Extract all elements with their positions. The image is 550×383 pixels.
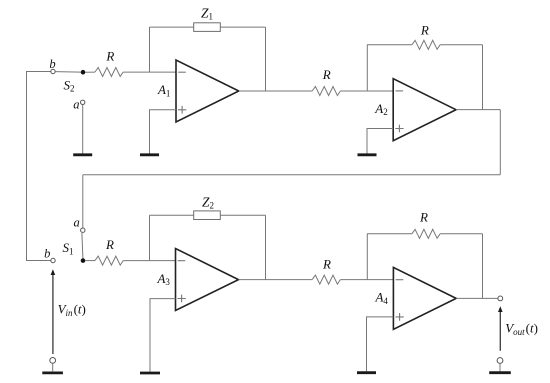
switch S1 blade	[82, 233, 83, 258]
wire A4 feedback top left segment	[367, 233, 412, 235]
ground A1	[140, 153, 159, 156]
switch S2 pole dot	[81, 70, 86, 75]
wire Vout source stem	[499, 363, 501, 371]
wire resistor to A1 inverting input	[123, 71, 176, 73]
A1 plus sign	[178, 106, 186, 114]
op-amp A4	[393, 267, 456, 329]
ground A2	[358, 153, 377, 156]
op-amp A1	[176, 60, 239, 122]
wire A2 noninverting input	[367, 129, 393, 154]
wire S1 pole to resistor	[85, 260, 95, 262]
wire A3 output	[239, 279, 313, 281]
A2 plus sign	[395, 125, 403, 133]
wire A2 feedback right vertical	[482, 45, 484, 110]
resistor R (A4 feedback)	[412, 229, 440, 238]
node Vout terminal	[498, 296, 503, 301]
wire A1 feedback right vertical	[265, 27, 267, 91]
wire A3 feedback top right segment	[220, 214, 265, 216]
switch S1 terminal b	[51, 258, 55, 262]
Vin arrow	[52, 274, 54, 355]
wire A2 feedback top right segment	[440, 44, 482, 46]
ground A3	[140, 372, 160, 375]
wire from S2 terminal a to ground	[82, 105, 84, 154]
ground Vout	[489, 371, 511, 374]
node Vin source terminal	[50, 358, 56, 364]
wire S2 pole to resistor	[85, 71, 95, 73]
svg-text:R: R	[420, 22, 429, 37]
node Vout source terminal	[497, 358, 503, 364]
svg-text:R: R	[322, 67, 331, 82]
svg-text:R: R	[105, 48, 114, 63]
resistor R (A2 feedback)	[412, 40, 440, 49]
A3 minus sign	[178, 260, 186, 262]
wire return line left vertical to S1 terminal a	[82, 175, 84, 228]
wire A3 feedback left vertical	[149, 215, 151, 260]
A4 plus sign	[396, 313, 404, 321]
switch S2 terminal a	[81, 100, 85, 104]
wire Vin source stem	[52, 363, 54, 371]
op-amp A3	[176, 249, 239, 311]
svg-text:b: b	[49, 57, 55, 71]
wire A3 feedback top left segment	[150, 214, 194, 216]
wire A2 feedback top left segment	[367, 44, 412, 46]
A4 minus sign	[396, 279, 404, 281]
wire A3 feedback right vertical	[265, 215, 267, 279]
svg-text:b: b	[44, 246, 50, 260]
switch S1 pole dot	[81, 258, 86, 263]
wire resistor to A3 inverting input	[123, 260, 175, 262]
svg-text:R: R	[419, 210, 428, 225]
resistor R (S2 to A1)	[95, 68, 123, 77]
wire A4 feedback left vertical	[366, 234, 368, 280]
wire A4 feedback top right segment	[440, 233, 482, 235]
switch S1 terminal a	[81, 228, 85, 232]
svg-text:a: a	[73, 215, 79, 229]
ground A4	[357, 371, 376, 374]
switch S2 blade	[55, 71, 80, 74]
wire A1 noninverting input	[150, 110, 177, 154]
wire A4 feedback right vertical	[482, 234, 484, 299]
wire A3 noninverting input	[150, 299, 176, 372]
wire left rail from S2-b down to S1-b	[27, 72, 51, 261]
wire A2 feedback left vertical	[366, 45, 368, 91]
svg-text:a: a	[73, 98, 79, 112]
op-amp A2	[393, 79, 456, 141]
wire A1 output	[239, 90, 312, 92]
wire resistor to A4 inverting input	[340, 279, 393, 281]
A2 minus sign	[396, 90, 404, 92]
impedance Z1 box	[194, 23, 221, 32]
A1 minus sign	[178, 71, 186, 73]
A3 plus sign	[178, 295, 186, 303]
wire resistor to A2 inverting input	[340, 90, 393, 92]
wire A1 feedback left vertical	[149, 27, 151, 72]
svg-text:R: R	[322, 257, 331, 272]
svg-text:R: R	[105, 237, 114, 252]
Vout arrow	[499, 311, 501, 351]
ground below S2 terminal a	[73, 153, 92, 156]
wire A1 feedback top left segment	[150, 26, 194, 28]
wire return line (A2 output to S1 terminal a)	[83, 174, 501, 176]
wire A2 output to right	[456, 109, 500, 111]
wire A1 feedback top right segment	[220, 26, 265, 28]
wire A2 output down right side	[499, 110, 501, 175]
resistor R (A3 to A4)	[312, 275, 340, 284]
resistor R (S1 to A3)	[95, 256, 123, 265]
resistor R (A1 to A2)	[312, 87, 340, 96]
switch S2 terminal b	[51, 69, 55, 73]
wire A4 noninverting input	[367, 317, 394, 371]
wire A4 output to Vout terminal	[456, 297, 498, 299]
impedance Z2 box	[194, 211, 221, 220]
ground Vin	[42, 371, 63, 374]
